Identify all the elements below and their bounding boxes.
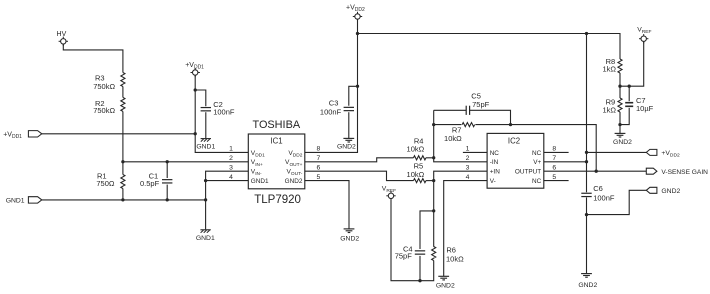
wire R2 to node VIN+ <box>122 111 124 174</box>
wire C1 bottom lead <box>166 185 168 200</box>
wire R5 to +IN node <box>426 180 434 182</box>
ground GND1 under C2 <box>196 139 215 151</box>
svg-text:10kΩ: 10kΩ <box>446 254 464 263</box>
wire R7 row to OUTPUT <box>475 125 596 172</box>
pin number 5 IC2 <box>552 174 556 181</box>
ground GND2 under V- <box>436 276 455 289</box>
wire VIN- row to GND1 column <box>206 171 249 229</box>
wire C1 top lead <box>166 162 168 178</box>
terminal +VDD2 output <box>646 149 680 158</box>
terminal +VDD2 top <box>346 5 365 22</box>
wire +IN column <box>434 171 487 247</box>
svg-text:GND2: GND2 <box>613 139 632 146</box>
wire C5 feedback top <box>434 110 511 124</box>
svg-text:8: 8 <box>552 146 556 153</box>
node GND1 rail junction <box>204 198 207 201</box>
capacitor C7 <box>625 96 653 113</box>
capacitor C2 <box>201 100 235 116</box>
capacitor C1 <box>140 172 172 189</box>
svg-text:1kΩ: 1kΩ <box>602 105 616 114</box>
pin number 2 <box>229 155 233 162</box>
node C5/-IN junction <box>432 123 435 126</box>
node +VDD2 rail junction <box>356 32 359 35</box>
svg-text:GND2: GND2 <box>337 144 356 151</box>
svg-text:4: 4 <box>229 174 233 181</box>
node C6 bottom junction <box>585 213 588 216</box>
node C5/R7 right junction <box>509 123 512 126</box>
resistor R4 <box>407 137 426 160</box>
svg-text:3: 3 <box>229 165 233 172</box>
wire R3 to R2 <box>122 87 124 98</box>
pin number 6 <box>317 165 321 172</box>
svg-text:NC: NC <box>490 150 500 157</box>
wire GND1 pin row <box>206 180 249 182</box>
wire V+ drop column <box>586 34 588 193</box>
svg-text:7: 7 <box>317 155 321 162</box>
capacitor C6 <box>581 184 615 202</box>
svg-text:GND1: GND1 <box>196 235 215 242</box>
svg-text:8: 8 <box>317 146 321 153</box>
node R4/-IN junction <box>432 156 435 159</box>
resistor R2 <box>93 97 125 115</box>
isolation amplifier IC1 TLP7920 <box>248 134 304 189</box>
svg-text:-IN: -IN <box>490 159 499 166</box>
wire IC2 pin 1 NC stub <box>463 151 487 153</box>
wire IC1 pin 5 to GND2 <box>305 181 349 229</box>
svg-text:V-: V- <box>490 178 496 185</box>
wire R4 to -IN node <box>426 157 434 159</box>
part number TLP7920 <box>254 194 301 206</box>
svg-text:1: 1 <box>466 146 470 153</box>
node VIN-/GND1 junction <box>204 179 207 182</box>
svg-text:+IN: +IN <box>490 169 501 176</box>
node R1 bottom junction <box>121 198 124 201</box>
svg-text:C3: C3 <box>329 98 339 107</box>
wire VIN+ row <box>123 161 248 163</box>
node C1 top junction <box>166 160 169 163</box>
svg-text:TLP7920: TLP7920 <box>254 194 301 206</box>
capacitor C3 <box>320 98 354 116</box>
capacitor C5 <box>466 92 489 115</box>
svg-text:100nF: 100nF <box>213 107 235 116</box>
svg-text:GND1: GND1 <box>196 144 215 151</box>
wire C2 branch <box>195 90 206 106</box>
pin number 8 IC2 <box>552 146 556 153</box>
wire C3 branch <box>349 86 358 106</box>
op-amp IC2 <box>487 133 544 188</box>
svg-text:6: 6 <box>317 165 321 172</box>
wire R1 to GND1 rail <box>122 189 124 200</box>
node C4 branch junction <box>432 209 435 212</box>
wire C3 to GND2 <box>348 112 350 138</box>
svg-text:3: 3 <box>466 165 470 172</box>
svg-text:0.5pF: 0.5pF <box>140 179 160 188</box>
resistor R8 <box>602 57 622 74</box>
svg-text:NC: NC <box>532 150 542 157</box>
svg-text:75pF: 75pF <box>395 252 413 261</box>
svg-text:750kΩ: 750kΩ <box>93 106 115 115</box>
svg-text:7: 7 <box>552 155 556 162</box>
svg-text:75pF: 75pF <box>472 100 490 109</box>
svg-text:GND2: GND2 <box>340 235 359 242</box>
wire +VDD2 terminal row <box>587 151 647 153</box>
svg-text:6: 6 <box>552 165 556 172</box>
resistor R9 <box>602 98 622 115</box>
svg-text:GND2: GND2 <box>578 282 597 289</box>
svg-text:100nF: 100nF <box>593 193 615 202</box>
wire C2 to GND1 <box>205 112 207 138</box>
wire R8 to R9 <box>619 73 621 98</box>
svg-text:2: 2 <box>466 155 470 162</box>
terminal +VDD1 top <box>185 62 204 77</box>
svg-text:10kΩ: 10kΩ <box>444 134 462 143</box>
terminal VREF top <box>637 26 651 43</box>
svg-text:OUTPUT: OUTPUT <box>515 169 541 176</box>
pin number 3 IC2 <box>466 165 470 172</box>
svg-text:1: 1 <box>229 146 233 153</box>
svg-text:2: 2 <box>229 155 233 162</box>
pin number 7 IC2 <box>552 155 556 162</box>
svg-text:NC: NC <box>532 178 542 185</box>
svg-text:10kΩ: 10kΩ <box>407 170 425 179</box>
wire -IN column <box>434 110 487 162</box>
wire VOUT+ jog to R4 <box>305 158 414 162</box>
node R8/R9/VREF junction <box>618 85 621 88</box>
svg-text:750kΩ: 750kΩ <box>93 82 115 91</box>
wire C4 bottom lead <box>419 256 421 281</box>
ground GND2 under C3 <box>337 138 356 150</box>
terminal GND2 output <box>646 187 680 195</box>
pin number 1 IC2 <box>466 146 470 153</box>
node rail/V+ drop junction <box>585 32 588 35</box>
wire R7 row left <box>434 124 462 126</box>
svg-text:GND2: GND2 <box>436 283 455 290</box>
svg-text:GND1: GND1 <box>6 197 25 204</box>
wire V+ row <box>544 161 587 163</box>
svg-text:4: 4 <box>466 174 470 181</box>
svg-text:5: 5 <box>552 174 556 181</box>
terminal VREF mid <box>382 185 396 200</box>
wire C7 top lead <box>628 86 630 101</box>
terminal HV <box>57 31 68 46</box>
ground GND2 under R9 <box>613 133 632 146</box>
pin number 4 IC2 <box>466 174 470 181</box>
svg-text:100nF: 100nF <box>320 108 342 117</box>
wire C4 branch <box>420 211 434 249</box>
node R5/+IN junction <box>432 179 435 182</box>
pin number 8 <box>317 146 321 153</box>
svg-text:10kΩ: 10kΩ <box>407 144 425 153</box>
pin number 4 <box>229 174 233 181</box>
svg-text:1kΩ: 1kΩ <box>602 65 616 74</box>
node +VDD1/C2 junction <box>194 88 197 91</box>
node C7 top junction <box>628 85 631 88</box>
svg-text:R6: R6 <box>446 246 456 255</box>
svg-text:C6: C6 <box>593 184 603 193</box>
node +VDD2 terminal junction <box>585 151 588 154</box>
wire +VDD2 column to IC1 pin 8 <box>305 19 358 152</box>
node R1/R2/VIN+ junction <box>121 160 124 163</box>
wire IC2 pin 5 NC stub <box>544 180 569 182</box>
resistor R3 <box>93 73 125 92</box>
pin number 6 IC2 <box>552 165 556 172</box>
wire HV to R3 top <box>63 44 123 72</box>
svg-text:V-SENSE GAIN: V-SENSE GAIN <box>661 169 708 176</box>
svg-text:GND2: GND2 <box>661 188 680 195</box>
svg-text:HV: HV <box>57 31 67 38</box>
wire VREF top branch <box>620 42 644 87</box>
node +VDD1 row junction <box>194 132 197 135</box>
wire R9 to GND2 <box>619 112 621 133</box>
wire C6 column to GND2 <box>586 197 588 273</box>
node C1 bottom junction <box>166 198 169 201</box>
wire C7 bottom lead <box>620 108 629 125</box>
node V+ junction <box>585 160 588 163</box>
node R9/C7 bottom junction <box>618 123 621 126</box>
svg-text:IC2: IC2 <box>508 136 520 145</box>
wire GND1 rail <box>42 199 206 201</box>
node C4 bottom junction <box>418 279 421 282</box>
pin number 3 <box>229 165 233 172</box>
wire GND2 terminal to C6 bottom <box>587 190 647 214</box>
pin number 2 IC2 <box>466 155 470 162</box>
svg-text:TOSHIBA: TOSHIBA <box>252 119 300 131</box>
wire +VDD1 column to IC1 pin 1 <box>195 75 248 152</box>
svg-text:10µF: 10µF <box>636 104 654 113</box>
resistor R5 <box>407 162 426 183</box>
resistor R6 <box>432 246 464 264</box>
wire +VDD2 top rail <box>358 34 621 60</box>
node feedback/OUTPUT junction <box>595 170 598 173</box>
ground GND2 under IC1 pin5 <box>340 229 359 243</box>
terminal +VDD1 input <box>3 131 42 140</box>
wire +VDD1 row <box>42 133 195 135</box>
wire OUTPUT row <box>544 170 647 172</box>
pin number 1 <box>229 146 233 153</box>
ground GND1 bottom <box>196 230 215 242</box>
capacitor C4 <box>395 244 426 260</box>
wire VOUT- jog to R5 <box>305 171 414 180</box>
svg-text:5: 5 <box>317 174 321 181</box>
ground GND2 bottom right <box>578 274 597 290</box>
svg-text:GND1: GND1 <box>251 178 269 185</box>
wire R6 bottom to VREF <box>391 199 434 281</box>
wire IC2 V- to GND2 <box>444 181 487 277</box>
pin number 5 <box>317 174 321 181</box>
terminal V-SENSE GAIN <box>646 168 708 176</box>
resistor R1 <box>96 172 125 189</box>
pin number 7 <box>317 155 321 162</box>
svg-text:IC1: IC1 <box>270 137 282 146</box>
node C3 branch junction <box>356 85 359 88</box>
svg-text:GND2: GND2 <box>285 178 303 185</box>
svg-text:V+: V+ <box>533 159 541 166</box>
op-amp U-label TOSHIBA <box>252 119 300 131</box>
terminal GND1 input <box>6 197 42 205</box>
wire IC2 pin 8 NC stub <box>544 151 569 153</box>
resistor R7 <box>444 123 475 143</box>
svg-text:750Ω: 750Ω <box>96 179 115 188</box>
